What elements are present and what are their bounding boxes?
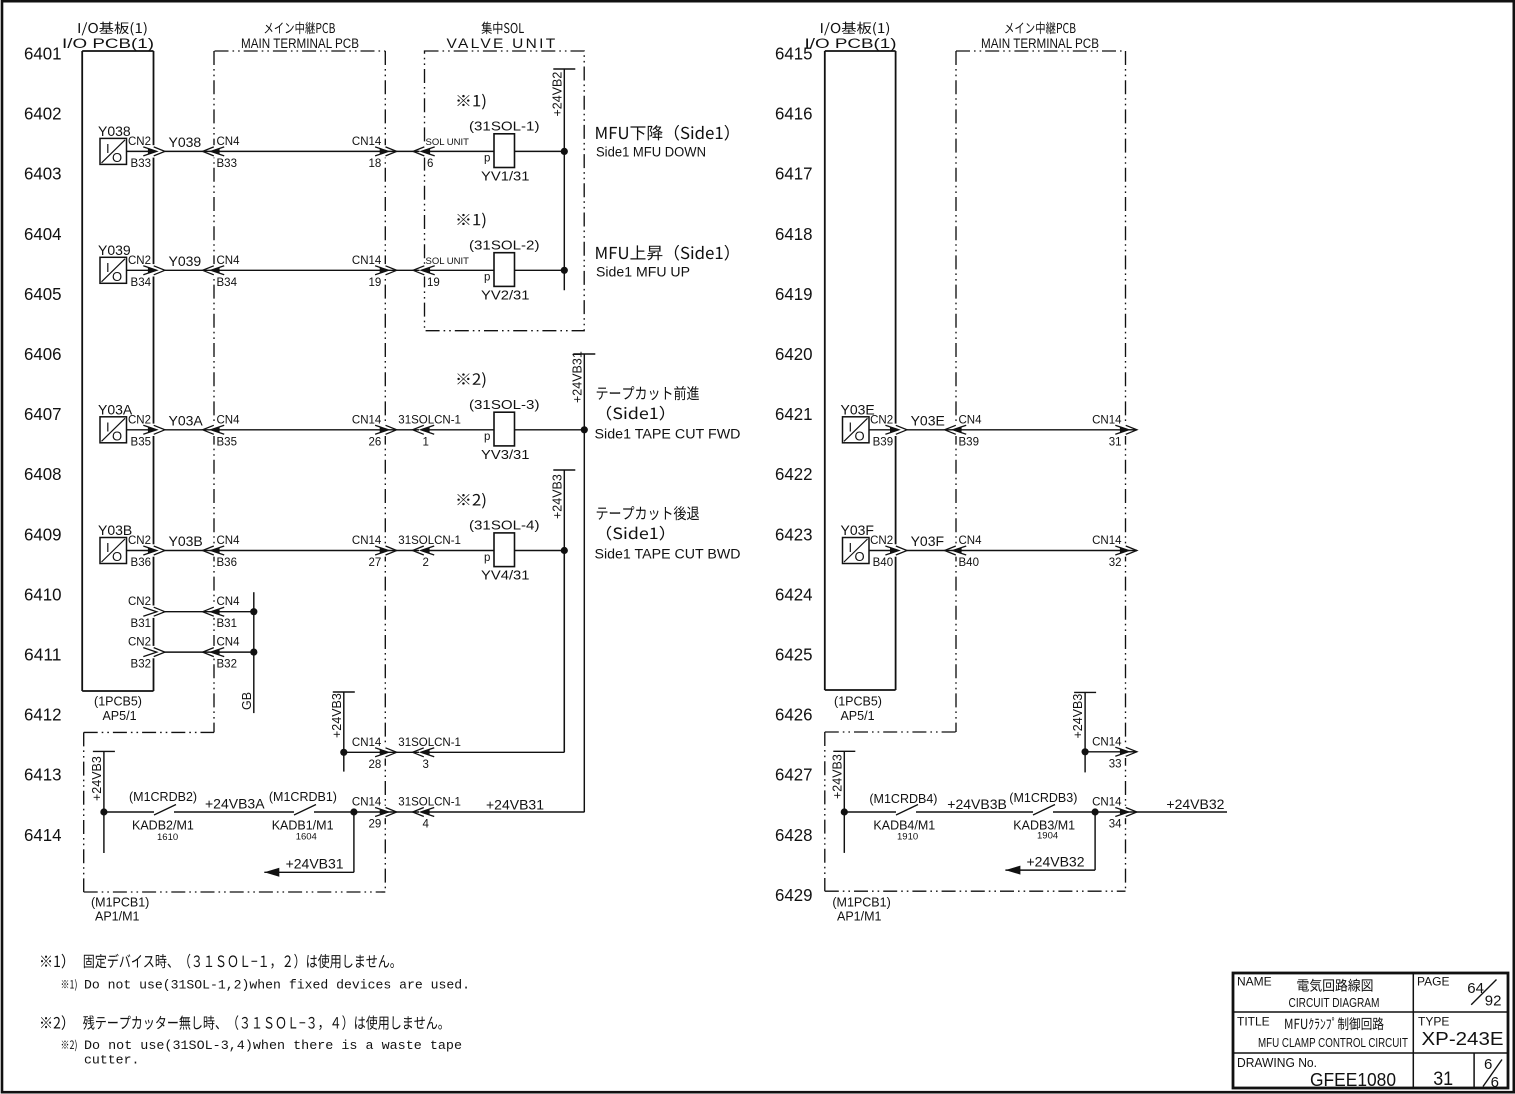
svg-text:B39: B39 — [873, 436, 893, 448]
I/O PCB(1) right box left edge — [824, 51, 826, 690]
connector 31SOLCN-1 pin 3 — [413, 746, 435, 758]
connector CN4 pin B39 edge — [945, 424, 967, 436]
wire KADB1 to node — [314, 811, 354, 813]
wire CN14-27 to 31SOLCN-1-2 — [385, 550, 419, 552]
svg-text:I: I — [106, 141, 110, 156]
wire CN2-CN4 B32 row — [165, 651, 214, 653]
wire YV4 to +24VB3 — [515, 550, 565, 552]
net +24VB3 terminal bar — [553, 469, 575, 471]
header I/O kiban (1) left — [79, 22, 147, 36]
wire tail CN14-33 — [1126, 751, 1138, 753]
svg-text:KADB4/M1: KADB4/M1 — [873, 819, 935, 833]
svg-text:YV1/31: YV1/31 — [481, 168, 530, 183]
title MFU clamp seigyo kairo — [1285, 1017, 1384, 1030]
connector CN4 pin B34 edge — [203, 264, 225, 276]
junction node GB / B32 — [250, 649, 257, 656]
connector CN4 pin B40 edge — [945, 544, 967, 556]
svg-text:CN4: CN4 — [959, 414, 983, 426]
description (Side1) fwd — [607, 406, 664, 421]
wire CN14-18 to SOL UNIT-6 — [385, 150, 419, 152]
M1PCB1 right box bottom edge — [825, 890, 1126, 892]
relay contact KADB2/M1 (M1CRDB2) — [154, 805, 176, 816]
svg-text:6402: 6402 — [24, 104, 62, 124]
svg-text:MFU CLAMP CONTROL CIRCUIT: MFU CLAMP CONTROL CIRCUIT — [1258, 1035, 1408, 1050]
svg-text:1610: 1610 — [157, 832, 178, 843]
svg-text:CN2: CN2 — [870, 535, 893, 547]
connector CN14 pin 33 edge — [1115, 746, 1137, 758]
note 2 marker JP — [41, 1015, 65, 1030]
net GB vertical line — [253, 592, 255, 713]
svg-text:AP1/M1: AP1/M1 — [95, 910, 140, 924]
svg-text:B32: B32 — [131, 659, 151, 671]
svg-text:CN2: CN2 — [128, 255, 151, 267]
svg-text:CN4: CN4 — [217, 637, 241, 649]
svg-text:AP5/1: AP5/1 — [102, 709, 136, 723]
solenoid valve YV2/31 (31SOL-2) — [469, 237, 540, 302]
wire 31SOLCN-1-3 to riser — [424, 751, 564, 753]
wire YV2 to +24VB2 — [515, 269, 565, 271]
svg-text:+24VB3: +24VB3 — [90, 756, 104, 801]
svg-text:YV3/31: YV3/31 — [481, 447, 530, 462]
svg-text:(M1PCB1): (M1PCB1) — [91, 896, 149, 910]
connector CN4 pin B35 edge — [203, 424, 225, 436]
svg-text:6405: 6405 — [24, 284, 62, 304]
note 2 JP text — [83, 1015, 442, 1030]
svg-text:I: I — [106, 419, 110, 434]
MAIN TERMINAL PCB right box left edge — [955, 51, 957, 732]
svg-text:SOL UNIT: SOL UNIT — [426, 137, 470, 148]
svg-text:6404: 6404 — [24, 224, 62, 244]
wire +24VB3 to contact KADB2 — [104, 811, 154, 813]
svg-text:p: p — [484, 431, 490, 443]
svg-text:6: 6 — [1491, 1074, 1499, 1091]
svg-text:Side1 TAPE CUT BWD: Side1 TAPE CUT BWD — [595, 547, 741, 562]
svg-text:6414: 6414 — [24, 825, 62, 845]
I/O output Y039 — [98, 242, 131, 284]
svg-text:B36: B36 — [131, 557, 151, 569]
svg-text:4: 4 — [423, 819, 430, 831]
title block divider row2 — [1233, 1052, 1508, 1054]
svg-text:6: 6 — [1484, 1056, 1492, 1073]
wire riser +24VB3 (drawn above) — [563, 551, 565, 753]
svg-text:Y038: Y038 — [98, 123, 131, 139]
arrow +24VB32 out — [1005, 866, 1020, 875]
svg-text:6411: 6411 — [24, 645, 62, 665]
svg-text:6419: 6419 — [775, 284, 813, 304]
connector CN4 B32 edge — [203, 646, 225, 658]
wire to solenoid YV2 — [425, 269, 495, 271]
svg-text:+24VB3: +24VB3 — [830, 754, 844, 799]
connector CN14 pin 19 edge — [375, 264, 397, 276]
svg-text:6406: 6406 — [24, 344, 62, 364]
wire KADB3 to node — [1053, 811, 1095, 813]
svg-text:31: 31 — [1433, 1069, 1453, 1090]
wire branch to +24VB32 arrow — [1094, 812, 1096, 870]
net +24VB31 terminal bar — [573, 353, 595, 355]
svg-text:6425: 6425 — [775, 645, 813, 665]
svg-text:CN2: CN2 — [128, 136, 151, 148]
net +24VB2 vertical line — [563, 69, 565, 290]
svg-text:(M1CRDB3): (M1CRDB3) — [1009, 791, 1077, 805]
svg-text:CN14: CN14 — [352, 737, 382, 749]
svg-text:31SOLCN-1: 31SOLCN-1 — [398, 535, 461, 547]
I/O output Y03E — [841, 401, 875, 443]
svg-text:26: 26 — [369, 436, 382, 448]
svg-text:28: 28 — [369, 759, 382, 771]
svg-text:CN14: CN14 — [352, 797, 382, 809]
wire Y038 row — [127, 150, 149, 152]
svg-text:CN14: CN14 — [352, 255, 382, 267]
svg-text:O: O — [112, 150, 122, 165]
wire Y039 row — [127, 269, 149, 271]
svg-text:O: O — [112, 428, 122, 443]
note 1 JP text — [84, 954, 394, 969]
svg-text:CN14: CN14 — [352, 136, 382, 148]
junction node GB / B31 — [250, 608, 257, 615]
svg-text:CN14: CN14 — [1092, 414, 1122, 426]
wire CN14-34 out +24VB32 — [1126, 811, 1228, 813]
svg-text:O: O — [112, 269, 122, 284]
VALVE UNIT box — [425, 51, 585, 331]
svg-text:(M1PCB1): (M1PCB1) — [832, 896, 890, 910]
svg-text:Do not use(31SOL-1,2)when fixe: Do not use(31SOL-1,2)when fixed devices … — [84, 978, 470, 993]
svg-text:6421: 6421 — [775, 404, 813, 424]
svg-text:B40: B40 — [873, 557, 893, 569]
net +24VB31 vertical line — [583, 354, 585, 812]
svg-text:6423: 6423 — [775, 524, 813, 544]
svg-text:CN4: CN4 — [217, 255, 241, 267]
connector CN14 pin 34 edge — [1115, 806, 1137, 818]
title block — [1233, 973, 1508, 1088]
svg-text:CN2: CN2 — [128, 535, 151, 547]
svg-text:XP-243E: XP-243E — [1422, 1029, 1504, 1049]
note 2 marker EN — [62, 1040, 77, 1052]
wire YV1 to +24VB2 — [515, 150, 565, 152]
svg-text:KADB2/M1: KADB2/M1 — [132, 819, 194, 833]
svg-text:I/O PCB(1): I/O PCB(1) — [62, 36, 154, 51]
wire +24VB3 to contact KADB4 — [844, 811, 896, 813]
svg-text:+24VB3: +24VB3 — [1071, 694, 1085, 739]
svg-text:3: 3 — [423, 759, 429, 771]
svg-text:Y03E: Y03E — [911, 412, 945, 428]
svg-text:34: 34 — [1109, 819, 1122, 831]
svg-text:MAIN TERMINAL PCB: MAIN TERMINAL PCB — [981, 36, 1099, 51]
svg-text:6: 6 — [427, 158, 433, 170]
svg-text:GB: GB — [240, 692, 254, 710]
svg-text:B31: B31 — [217, 618, 237, 630]
junction node +24VB3 / KADB4 — [841, 808, 848, 815]
wire branch to +24VB31 arrow — [353, 812, 355, 872]
header shuchu SOL — [481, 22, 523, 34]
svg-text:6420: 6420 — [775, 344, 813, 364]
svg-text:6424: 6424 — [775, 584, 813, 604]
wire CN2-CN4 B31 row — [165, 611, 214, 613]
I/O PCB(1) box left edge — [81, 51, 83, 691]
net +24VB3 stub terminal bar left — [93, 750, 115, 752]
svg-text:B34: B34 — [217, 277, 238, 289]
junction node +24VB2 / YV2 — [561, 267, 568, 274]
connector CN14 pin 28 edge — [375, 746, 397, 758]
wire node to CN14-29 — [354, 811, 380, 813]
description tape cut forward — [597, 386, 699, 400]
connector CN2 pin B36 edge — [143, 544, 165, 556]
net +24VB3 stub row 6413 — [343, 692, 345, 772]
svg-text:6416: 6416 — [775, 104, 813, 124]
I/O output Y03A — [98, 401, 133, 443]
junction node +24VB3 / CN14-33 — [1082, 748, 1089, 755]
svg-text:(M1CRDB2): (M1CRDB2) — [129, 790, 197, 804]
svg-text:B33: B33 — [131, 158, 151, 170]
junction node +24VB32 branch — [1092, 808, 1099, 815]
title block divider row1 — [1233, 1011, 1508, 1013]
description MFU up (Side1) — [596, 245, 729, 261]
svg-text:(31SOL-4): (31SOL-4) — [469, 518, 540, 533]
svg-text:+24VB31: +24VB31 — [286, 856, 344, 872]
svg-text:6413: 6413 — [24, 765, 62, 785]
svg-text:CN2: CN2 — [128, 414, 151, 426]
svg-text:+24VB3: +24VB3 — [551, 474, 565, 519]
svg-text:CN4: CN4 — [217, 596, 241, 608]
relay contact KADB1/M1 (M1CRDB1) — [294, 805, 316, 816]
svg-text:6403: 6403 — [24, 164, 62, 184]
MAIN TERMINAL PCB box right edge — [384, 51, 386, 892]
svg-text:(1PCB5): (1PCB5) — [94, 695, 142, 709]
svg-text:19: 19 — [427, 277, 440, 289]
svg-text:(31SOL-2): (31SOL-2) — [469, 237, 540, 252]
net +24VB3 stub terminal bar right2 — [833, 750, 855, 752]
svg-text:6426: 6426 — [775, 705, 813, 725]
svg-text:CN14: CN14 — [352, 414, 382, 426]
note 1 marker JP — [41, 954, 65, 969]
svg-text:CN4: CN4 — [217, 535, 241, 547]
svg-text:B39: B39 — [959, 436, 979, 448]
title block divider col row3b — [1473, 1053, 1475, 1088]
svg-text:I: I — [106, 540, 110, 555]
svg-text:NAME: NAME — [1237, 975, 1272, 989]
svg-text:19: 19 — [369, 277, 382, 289]
connector CN14 pin 26 edge — [375, 424, 397, 436]
I/O PCB(1) box right edge — [153, 51, 155, 691]
relay contact KADB3/M1 (M1CRDB3) — [1033, 805, 1055, 816]
wire Y03B row — [127, 550, 149, 552]
wire CN14-19 to SOL UNIT-19 — [385, 269, 419, 271]
svg-text:18: 18 — [369, 158, 382, 170]
svg-text:6408: 6408 — [24, 464, 62, 484]
svg-text:+24VB31: +24VB31 — [486, 797, 544, 813]
svg-text:p: p — [484, 272, 490, 284]
svg-text:Side1 TAPE CUT FWD: Side1 TAPE CUT FWD — [595, 427, 741, 442]
svg-text:B31: B31 — [131, 618, 151, 630]
svg-text:6417: 6417 — [775, 164, 813, 184]
title block divider col — [1412, 973, 1414, 1053]
MAIN TERMINAL PCB right box top edge — [956, 50, 1126, 52]
junction node +24VB3 / CN14-28 — [340, 749, 347, 756]
svg-text:B35: B35 — [217, 436, 237, 448]
wire +24VB3 to CN14-33 — [1085, 751, 1120, 753]
svg-text:CN14: CN14 — [352, 535, 382, 547]
relay contact KADB4/M1 (M1CRDB4) — [896, 805, 918, 816]
svg-text:Y039: Y039 — [98, 242, 131, 258]
svg-text:CN4: CN4 — [217, 136, 241, 148]
description (Side1) bwd — [607, 526, 664, 541]
wire CN14-29 to 31SOLCN-1-4 — [385, 811, 419, 813]
wire +24VB3 to CN14-28 — [344, 751, 381, 753]
svg-text:cutter.: cutter. — [84, 1053, 139, 1068]
svg-text:I/O PCB(1): I/O PCB(1) — [805, 36, 897, 51]
MAIN TERMINAL PCB right box right edge — [1125, 51, 1127, 891]
svg-text:27: 27 — [369, 557, 382, 569]
wire CN14-28 to 31SOLCN-1-3 — [385, 751, 419, 753]
svg-text:p: p — [484, 552, 490, 564]
connector CN2 pin B40 edge — [885, 544, 907, 556]
svg-text:AP1/M1: AP1/M1 — [837, 910, 882, 924]
wire to solenoid YV3 — [424, 429, 494, 431]
svg-text:1604: 1604 — [296, 832, 317, 843]
svg-text:SOL UNIT: SOL UNIT — [426, 256, 470, 267]
svg-text:6427: 6427 — [775, 765, 813, 785]
svg-text:p: p — [484, 153, 490, 165]
svg-text:(M1CRDB1): (M1CRDB1) — [269, 790, 337, 804]
svg-text:(1PCB5): (1PCB5) — [834, 695, 882, 709]
M1PCB1 box left edge — [83, 732, 85, 892]
svg-text:TYPE: TYPE — [1418, 1015, 1449, 1029]
svg-text:6410: 6410 — [24, 584, 62, 604]
svg-text:B33: B33 — [217, 158, 237, 170]
wire to solenoid YV4 — [424, 550, 494, 552]
svg-text:Side1 MFU DOWN: Side1 MFU DOWN — [596, 145, 706, 160]
page slash — [1471, 980, 1496, 1005]
M1PCB1 right box left edge — [824, 732, 826, 891]
svg-text:YV2/31: YV2/31 — [481, 287, 530, 302]
net +24VB3 stub row 6414 — [103, 751, 105, 853]
svg-text:MAIN TERMINAL PCB: MAIN TERMINAL PCB — [241, 36, 359, 51]
wire CN14-26 to 31SOLCN-1-1 — [385, 429, 419, 431]
svg-text:6412: 6412 — [24, 705, 62, 725]
svg-text:1: 1 — [423, 436, 429, 448]
I/O PCB(1) right box right edge — [895, 51, 897, 690]
svg-text:Y03F: Y03F — [841, 522, 874, 538]
svg-text:VALVE UNIT: VALVE UNIT — [447, 36, 558, 51]
svg-text:DRAWING No.: DRAWING No. — [1237, 1056, 1317, 1070]
svg-text:31SOLCN-1: 31SOLCN-1 — [398, 797, 461, 809]
svg-text:O: O — [855, 428, 865, 443]
M1PCB1 box top edge left half — [84, 731, 214, 733]
svg-text:+24VB3B: +24VB3B — [947, 796, 1007, 812]
svg-text:CN4: CN4 — [959, 535, 983, 547]
svg-text:+24VB32: +24VB32 — [1166, 796, 1224, 812]
svg-text:B40: B40 — [959, 557, 979, 569]
svg-text:6418: 6418 — [775, 224, 813, 244]
solenoid valve YV3/31 (31SOL-3) — [469, 397, 540, 462]
connector CN14 pin 18 edge — [375, 145, 397, 157]
svg-text:Do not use(31SOL-3,4)when ther: Do not use(31SOL-3,4)when there is a was… — [84, 1038, 462, 1053]
svg-text:6407: 6407 — [24, 404, 62, 424]
description tape cut backward — [597, 506, 699, 520]
net +24VB3 stub row 6428 right — [843, 751, 845, 853]
svg-text:I: I — [106, 260, 110, 275]
svg-text:O: O — [112, 549, 122, 564]
svg-text:6422: 6422 — [775, 464, 813, 484]
svg-text:CN4: CN4 — [217, 414, 241, 426]
svg-text:32: 32 — [1109, 557, 1122, 569]
note 1 marker EN — [62, 979, 77, 991]
svg-text:B34: B34 — [131, 277, 152, 289]
svg-text:B32: B32 — [217, 659, 237, 671]
svg-text:+24VB32: +24VB32 — [1027, 854, 1085, 870]
svg-text:+24VB31: +24VB31 — [571, 351, 585, 403]
connector 31SOLCN-1 pin 1 — [413, 424, 435, 436]
svg-text:Side1 MFU UP: Side1 MFU UP — [596, 265, 690, 280]
net +24VB3 stub terminal bar — [333, 691, 355, 693]
connector CN14 pin 29 edge — [375, 806, 397, 818]
I/O output Y03F — [841, 522, 874, 564]
svg-text:31: 31 — [1109, 436, 1122, 448]
header main relay PCB left — [265, 22, 335, 34]
svg-text:6428: 6428 — [775, 825, 813, 845]
I/O PCB(1) right box top edge — [825, 50, 896, 52]
svg-text:PAGE: PAGE — [1417, 975, 1449, 989]
svg-text:Y03F: Y03F — [911, 533, 944, 549]
svg-text:(31SOL-1): (31SOL-1) — [469, 118, 540, 133]
connector CN2 pin B33 edge — [143, 145, 165, 157]
junction node +24VB3 / YV4 — [561, 547, 568, 554]
svg-text:KADB1/M1: KADB1/M1 — [272, 819, 334, 833]
wire YV3 to +24VB31 — [515, 429, 585, 431]
wire Y03A row — [127, 429, 149, 431]
svg-text:1910: 1910 — [897, 832, 918, 843]
M1PCB1 box bottom edge — [84, 891, 386, 893]
connector CN4 B31 edge — [203, 606, 225, 618]
net +24VB3 stub terminal bar right — [1074, 691, 1096, 693]
net +24VB3 vertical line — [563, 470, 565, 752]
svg-text:CN14: CN14 — [1092, 535, 1122, 547]
svg-text:CN2: CN2 — [870, 414, 893, 426]
svg-text:TITLE: TITLE — [1237, 1015, 1270, 1029]
connector CN14 pin 27 edge — [375, 544, 397, 556]
title denki kairo zu — [1297, 979, 1372, 992]
svg-text:AP5/1: AP5/1 — [840, 709, 874, 723]
svg-text:6401: 6401 — [24, 44, 62, 64]
svg-text:2: 2 — [423, 557, 429, 569]
svg-text:CIRCUIT DIAGRAM: CIRCUIT DIAGRAM — [1289, 995, 1380, 1010]
svg-text:CN14: CN14 — [1092, 736, 1122, 748]
svg-text:1904: 1904 — [1037, 831, 1058, 842]
connector CN4 pin B36 edge — [203, 544, 225, 556]
M1PCB1 right box top edge — [825, 731, 956, 733]
wire Y03F row — [869, 550, 891, 552]
wire to solenoid YV1 — [425, 150, 495, 152]
svg-text:B36: B36 — [217, 557, 237, 569]
junction node +24VB31 branch — [350, 808, 357, 815]
sheet slash — [1483, 1060, 1502, 1087]
wire Y03E row — [869, 429, 891, 431]
arrow +24VB31 out — [264, 868, 279, 877]
connector CN2 pin B34 edge — [143, 264, 165, 276]
description MFU down (Side1) — [596, 125, 729, 141]
svg-text:31SOLCN-1: 31SOLCN-1 — [398, 414, 461, 426]
wire KADB4 to KADB3 (+24VB3B) — [916, 811, 1033, 813]
svg-text:I: I — [849, 540, 853, 555]
svg-text:29: 29 — [369, 819, 382, 831]
I/O output Y03B — [98, 522, 132, 564]
wire node to CN14-34 — [1095, 811, 1120, 813]
solenoid valve YV4/31 (31SOL-4) — [469, 518, 540, 583]
I/O PCB(1) box top edge — [82, 50, 153, 52]
MAIN TERMINAL PCB box top edge — [215, 50, 386, 52]
MAIN TERMINAL PCB box left edge — [213, 51, 215, 732]
I/O PCB(1) right box bottom edge — [825, 689, 896, 691]
svg-text:(M1CRDB4): (M1CRDB4) — [869, 792, 937, 806]
